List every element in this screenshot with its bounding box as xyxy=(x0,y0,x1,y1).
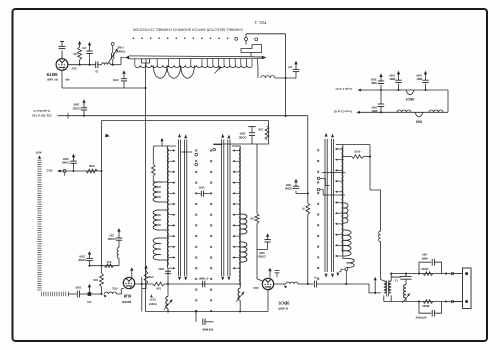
resistor 27K grid V3 xyxy=(255,214,259,224)
svg-text:27K: 27K xyxy=(106,260,111,264)
ground above resistor 4700 mixer xyxy=(145,268,147,271)
svg-text:1000: 1000 xyxy=(79,254,85,258)
svg-text:1500: 1500 xyxy=(285,183,291,187)
ground above capacitor 1500 xyxy=(83,103,85,108)
wire secondary top rail xyxy=(391,273,462,275)
wire to block corner xyxy=(91,293,101,295)
capacitor 7.5 MMF xyxy=(405,274,407,277)
tube V1 6BT8 RF amp xyxy=(56,59,68,71)
wire B+ vertical line xyxy=(307,116,309,203)
wire grid feed V3 xyxy=(256,144,258,214)
svg-text:600 MMF: 600 MMF xyxy=(202,327,214,331)
RF choke coil xyxy=(379,231,381,241)
svg-text:470: 470 xyxy=(288,65,293,68)
ground above capacitor 470 oscillator xyxy=(295,64,297,69)
svg-text:COND: COND xyxy=(78,258,86,262)
capacitor 4700 cathode bypass xyxy=(123,81,125,88)
terminal 2 xyxy=(465,300,468,303)
grid capacitor at V1 top xyxy=(61,50,63,58)
bank A coil comb spine xyxy=(167,146,169,268)
bank B coil section 1 xyxy=(240,214,247,234)
oscillator section coil loop 1 xyxy=(153,65,167,78)
wiper bar xyxy=(241,45,262,53)
capacitor 47 MMF series xyxy=(202,281,204,288)
ground above capacitor 3300 V3 xyxy=(267,237,269,240)
oscillator section coil loop 3 xyxy=(181,65,195,78)
svg-text:FIG. 1: FIG. 1 xyxy=(254,20,266,25)
svg-text:220: 220 xyxy=(109,233,114,237)
wire V1 cathode down xyxy=(61,70,63,88)
wire plate feed to coil xyxy=(369,145,371,190)
resistor 10K xyxy=(153,282,165,286)
svg-text:-22V: -22V xyxy=(71,66,77,70)
ground above heater cap a xyxy=(380,77,382,81)
plate coil V3 xyxy=(286,282,298,284)
wire to terminal 1 xyxy=(451,272,454,275)
wire bank C bottom to IF transformer xyxy=(369,284,381,293)
wire V2 plate xyxy=(135,283,153,285)
fine tuning trimmer vertical wire xyxy=(285,34,287,116)
svg-text:470: 470 xyxy=(82,46,87,49)
switch inductor chain xyxy=(134,59,136,65)
bank B trimmer coil xyxy=(238,288,240,300)
TEST POINT label xyxy=(150,294,153,297)
wire V1 plate to grid node xyxy=(68,64,96,66)
svg-text:COND: COND xyxy=(258,255,266,259)
svg-text:4700: 4700 xyxy=(147,275,153,279)
ground above capacitor 470 xyxy=(89,45,91,51)
svg-text:6U8: 6U8 xyxy=(416,119,422,123)
AGC line arrow xyxy=(57,170,61,173)
svg-text:MMF: MMF xyxy=(389,77,395,81)
svg-text:APPROX: APPROX xyxy=(415,316,426,320)
svg-text:AGC: AGC xyxy=(112,286,118,290)
heater of 3BC5 xyxy=(406,90,414,95)
resistor 15K in box xyxy=(265,126,269,140)
svg-text:CHANNEL SELECTOR SWITCH SHOWN: CHANNEL SELECTOR SWITCH SHOWN IN CHANNEL… xyxy=(132,27,243,31)
svg-text:3BC5: 3BC5 xyxy=(278,301,290,306)
bank C rotor lines xyxy=(324,139,326,272)
svg-text:MMF: MMF xyxy=(416,77,422,81)
capacitor 2200 mixer node xyxy=(167,268,169,284)
bank A top jog wires xyxy=(153,145,176,147)
wire mixer output down xyxy=(141,277,143,312)
resistor B+ feed bank A xyxy=(152,146,154,164)
contact dots column 2 xyxy=(210,150,212,152)
bank A rotor arrows xyxy=(178,134,181,138)
capacitor 1000 heater c xyxy=(424,89,426,91)
tube V3 3BC5 IF amp xyxy=(262,278,273,289)
wiper arrow on chain xyxy=(215,67,221,73)
bank A rotor lines xyxy=(177,140,179,277)
svg-text:6BT8: 6BT8 xyxy=(46,72,58,77)
svg-text:AGC: AGC xyxy=(253,286,259,290)
wire secondary bottom rail xyxy=(384,301,463,303)
svg-text:27K: 27K xyxy=(250,216,255,220)
wire mixer line with 47MMF xyxy=(168,283,240,285)
svg-text:10K: 10K xyxy=(156,286,161,290)
bank B coil section 2 xyxy=(240,242,247,262)
svg-text:680: 680 xyxy=(422,253,427,257)
svg-text:1500: 1500 xyxy=(73,103,79,107)
svg-text:1000: 1000 xyxy=(416,74,422,78)
ground at transformer xyxy=(374,277,377,280)
resistor 15K antenna return xyxy=(100,273,104,287)
switch contact dots row xyxy=(133,38,135,40)
ground above feed-through xyxy=(88,287,90,292)
series capacitor 47 plate xyxy=(313,281,315,288)
svg-text:100K: 100K xyxy=(89,164,95,168)
bank C wafer jog wires xyxy=(322,171,346,173)
bank B coil comb spine xyxy=(239,146,241,288)
svg-text:C21, R27 & C18: C21, R27 & C18 xyxy=(32,113,52,117)
heater choke coil a xyxy=(397,110,411,112)
oscillator section coil loop 2 xyxy=(167,65,181,78)
secondary tuning coil xyxy=(405,279,407,284)
ground at bank A top xyxy=(161,141,163,146)
wire tuner block left edge xyxy=(101,121,103,273)
svg-text:TEST: TEST xyxy=(149,297,156,300)
capacitor 470 to ground xyxy=(88,64,90,66)
capacitor 1000 heater d xyxy=(380,111,382,113)
svg-text:1000: 1000 xyxy=(389,74,395,78)
capacitor 3300 V3 grid xyxy=(257,248,268,250)
svg-text:MIXER: MIXER xyxy=(121,300,131,304)
capacitor 4700 between wafers xyxy=(196,193,201,195)
svg-text:15K: 15K xyxy=(93,278,98,282)
svg-text:MMF: MMF xyxy=(370,81,376,85)
svg-text:POINT: POINT xyxy=(149,302,157,305)
ground above capacitor 4700 xyxy=(123,74,125,79)
svg-text:2200: 2200 xyxy=(62,157,68,161)
wire heater line 2 xyxy=(357,111,448,113)
contact dots column 3 xyxy=(317,150,319,152)
output terminal strip xyxy=(463,268,472,309)
svg-text:4700: 4700 xyxy=(112,78,118,81)
svg-text:39000: 39000 xyxy=(422,304,430,308)
wire AGC takeoff line xyxy=(58,115,308,117)
resistor 4700 plate load xyxy=(343,156,352,158)
svg-text:47 MMF: 47 MMF xyxy=(198,276,208,280)
svg-text:AGC: AGC xyxy=(46,169,52,173)
svg-text:ANT.: ANT. xyxy=(35,150,42,154)
switch shorting link xyxy=(142,59,150,63)
bank C coil section 2 xyxy=(343,230,351,256)
terminal 1 xyxy=(465,272,468,275)
svg-text:COND: COND xyxy=(62,161,70,165)
bus arrow left xyxy=(125,56,129,59)
svg-text:To junction of: To junction of xyxy=(33,109,50,113)
tube V2 6U8 mixer xyxy=(123,277,134,288)
bank A oscillator coil section 2 xyxy=(161,209,168,211)
ground above capacitor 2200 xyxy=(73,157,75,161)
antenna arrow xyxy=(38,155,41,158)
IF transformer secondary winding xyxy=(389,281,391,293)
svg-text:409: 409 xyxy=(65,77,70,81)
svg-text:FINE: FINE xyxy=(117,45,123,49)
antenna series capacitor 1500 xyxy=(67,292,69,297)
capacitor 600MMF stub xyxy=(195,312,197,322)
svg-text:MMF: MMF xyxy=(371,109,377,113)
svg-text:10000: 10000 xyxy=(421,267,429,271)
antenna shielded lead-in horizontal xyxy=(41,292,43,296)
capacitor 2200 AGC bypass xyxy=(72,170,74,172)
svg-text:150: 150 xyxy=(73,52,78,55)
bank A oscillator coil section 1 xyxy=(153,181,167,183)
fine tuning mechanism box xyxy=(213,121,269,144)
svg-text:IF AMP: IF AMP xyxy=(278,307,288,311)
bank A oscillator coil section 3 xyxy=(161,237,168,239)
wire bottom line of block xyxy=(146,311,269,313)
wire to terminal 2 xyxy=(451,300,454,303)
contact dots column 1 xyxy=(195,150,197,152)
heater line 2 arrow xyxy=(357,111,361,114)
resistor 10000 xyxy=(418,273,420,275)
svg-text:15K: 15K xyxy=(258,128,263,132)
oscillator trimmer coil at test point xyxy=(166,296,168,308)
bus arrow right xyxy=(262,56,267,60)
svg-text:4700: 4700 xyxy=(354,150,360,154)
capacitor 1000 heater b xyxy=(397,89,399,91)
wire heater line 1 xyxy=(358,89,448,91)
wire AGC line xyxy=(58,170,102,172)
svg-text:1000: 1000 xyxy=(371,105,377,109)
wire antenna coupling line xyxy=(90,265,120,267)
wire cathode bus xyxy=(62,87,146,89)
svg-text:RF AMP: RF AMP xyxy=(47,77,58,81)
svg-text:2200: 2200 xyxy=(158,267,164,271)
bank B tap arrows xyxy=(234,150,240,152)
capacitor 330 loop xyxy=(419,302,431,314)
resistor 27K antenna xyxy=(105,264,114,268)
wire V3 plate xyxy=(274,283,286,285)
feed-through capacitor 470 xyxy=(88,292,92,296)
svg-text:6U8: 6U8 xyxy=(123,293,131,298)
IF transformer primary winding xyxy=(381,279,384,281)
svg-text:1500: 1500 xyxy=(75,285,81,289)
ground above heater cap c xyxy=(425,74,427,80)
svg-text:MMF: MMF xyxy=(421,256,427,260)
wire coil to selector bus xyxy=(121,58,125,65)
ground above V3 xyxy=(269,271,271,277)
svg-text:APPROX: APPROX xyxy=(391,275,402,278)
mixer grid coil xyxy=(105,292,117,294)
capacitor 470 on oscillator line xyxy=(295,72,297,78)
fine tuning variable capacitor xyxy=(112,64,114,66)
svg-text:COND: COND xyxy=(285,187,293,191)
svg-text:COND: COND xyxy=(108,237,116,241)
selector bus rotor line xyxy=(129,55,262,58)
bank C wafer circle bottom xyxy=(345,268,348,271)
capacitor 1500 bypass mid xyxy=(296,192,308,194)
resistor 39000 xyxy=(418,300,420,302)
series capacitor 10 xyxy=(95,61,97,68)
bank C top wire xyxy=(336,144,370,146)
svg-text:470: 470 xyxy=(87,300,92,304)
bank B rotor arrows xyxy=(221,134,224,138)
switch rotor contact circles xyxy=(235,37,238,40)
wire tuner block top edge xyxy=(102,120,269,122)
antenna shielded lead-in vertical xyxy=(37,159,41,161)
svg-text:3300: 3300 xyxy=(239,132,245,136)
bank C coil section 1 xyxy=(343,203,348,223)
heater choke coil b xyxy=(429,110,443,112)
ground above V2 xyxy=(131,271,133,278)
heater of 6U8 xyxy=(415,112,423,117)
ground above heater cap b xyxy=(398,74,400,80)
heater line 1 arrow xyxy=(358,89,362,92)
bank B rotor lines xyxy=(221,140,223,277)
coupling coil L1 xyxy=(98,64,102,66)
svg-text:To pin 12 of V2: To pin 12 of V2 xyxy=(333,110,352,114)
svg-text:1000: 1000 xyxy=(370,78,376,82)
capacitor 1000 heater a xyxy=(380,89,382,91)
IF transformer core xyxy=(385,281,387,297)
ground above capacitor 1500 mid xyxy=(295,182,297,186)
wire rotor circle to fine tuning trimmer line xyxy=(245,34,247,38)
bank C padder coil large loops xyxy=(343,258,347,260)
chain end coil to oscillator line xyxy=(257,65,259,78)
arrow marker inside block edge xyxy=(105,134,110,138)
svg-text:4700: 4700 xyxy=(198,186,204,190)
bank C tap arrows xyxy=(337,148,343,150)
capacitor 3300 in box xyxy=(248,126,256,128)
wire heater junction vertical xyxy=(447,90,449,112)
bank A tap arrows xyxy=(168,150,174,152)
svg-text:To pin 1 of V4: To pin 1 of V4 xyxy=(335,87,352,91)
svg-text:COND: COND xyxy=(239,135,247,139)
wire V3 cathode xyxy=(267,290,269,312)
ground above capacitor 220 xyxy=(118,231,120,238)
bank B top jog wires xyxy=(232,145,240,147)
capacitor 680 MMF loop xyxy=(419,262,431,273)
ground above capacitor 1000 xyxy=(89,254,91,258)
svg-text:TUNING: TUNING xyxy=(115,49,125,53)
bank C coil comb spine xyxy=(342,145,344,259)
capacitor at V3 screen xyxy=(275,270,280,272)
bank C rotor arrows xyxy=(325,133,328,137)
svg-text:COND: COND xyxy=(73,106,81,110)
svg-text:3BC5: 3BC5 xyxy=(406,97,415,101)
long vertical wire from switch to mixer line xyxy=(145,63,147,312)
capacitor 1000 to ground xyxy=(88,265,90,267)
capacitor 1500 bypass on takeoff line xyxy=(83,115,85,117)
coil and capacitor 220 to ground xyxy=(118,258,120,266)
resistor 47K on B+ line xyxy=(306,203,310,215)
resistor 150 to ground xyxy=(79,64,81,66)
resistor 100K AGC xyxy=(86,169,98,173)
resistor 4700 mixer xyxy=(144,271,148,284)
ground above resistor 150 xyxy=(79,44,81,47)
